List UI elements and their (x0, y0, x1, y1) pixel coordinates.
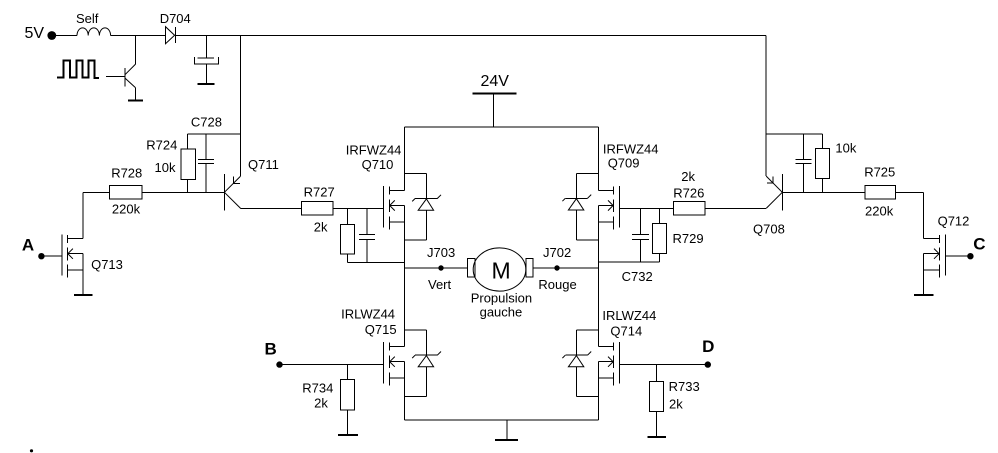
diode D704 cathode bar (175, 27, 177, 43)
mosfet Q710 drain stub (389, 190, 404, 192)
input D terminal dot (705, 361, 711, 367)
wire R727 to Q710 gate (333, 207, 383, 209)
resistor R733 bottom lead (655, 412, 657, 437)
transistor Q712 source body stub (923, 253, 939, 255)
mosfet Q715 source stub (389, 377, 404, 379)
wire junction rail to Q706 collector (134, 36, 136, 65)
zener upper-right loop top (576, 173, 598, 175)
mosfet Q709 source body stub (599, 205, 614, 207)
motor left terminal (468, 259, 475, 278)
transistor Q711 emitter arrow (234, 177, 240, 184)
wire Q712 drain riser (922, 192, 924, 238)
capacitor C728 bottom lead (205, 164, 207, 193)
svg-text:5V: 5V (25, 25, 45, 42)
transistor Q712 source stub (923, 269, 939, 271)
zener lower-left loop bottom (404, 396, 426, 398)
wire Q713 source to ground (82, 254, 84, 295)
capacitor filter lead bottom (205, 64, 207, 84)
resistor 10k right top lead (821, 134, 823, 148)
ground bar under Q713 (74, 294, 93, 296)
terminal bar under filter capacitor (198, 83, 215, 85)
wire Q712 source to ground (922, 254, 924, 295)
mosfet Q710 gate bar (382, 186, 384, 227)
ground bar bottom center (495, 439, 518, 441)
zener upper-left loop top (404, 173, 426, 175)
motor M body (473, 248, 526, 291)
wire R728 left to Q713 drain riser (83, 191, 109, 193)
zener upper-left anode lead (425, 210, 427, 240)
wire input B to Q715 gate (280, 364, 384, 366)
transistor Q706 collector diagonal (125, 64, 135, 74)
mosfet Q709 drain stub (599, 190, 614, 192)
resistor R724 bottom lead (186, 180, 188, 193)
svg-text:2k: 2k (314, 396, 328, 411)
zener lower-right anode lead (575, 367, 577, 397)
svg-text:M: M (492, 257, 511, 283)
wire bridge right leg middle (598, 206, 600, 347)
svg-text:C728: C728 (191, 115, 222, 130)
wire Q706 emitter to ground (134, 87, 136, 100)
zener lower-left bar ticks (412, 355, 415, 358)
wire input A to Q713 gate (41, 255, 62, 257)
wire Q713 drain riser to R728 (82, 192, 84, 238)
transistor Q711 emitter diagonal (224, 176, 240, 192)
wire R728 right to Q711 base (142, 191, 224, 193)
svg-text:2k: 2k (681, 169, 695, 184)
wire horizontal feeder right y134 (766, 133, 822, 135)
svg-text:R724: R724 (146, 138, 177, 153)
transistor Q712 channel segments (938, 235, 940, 243)
wire 5V to inductor (55, 35, 77, 37)
PWM square wave input symbol (57, 61, 99, 78)
svg-text:IRFWZ44: IRFWZ44 (603, 142, 659, 157)
svg-text:D704: D704 (160, 11, 191, 26)
mosfet Q714 source stub (599, 377, 614, 379)
transistor Q708 emitter arrow (767, 176, 773, 183)
wire rail down to Q708 emitter riser (765, 36, 767, 177)
svg-text:R727: R727 (304, 185, 335, 200)
mosfet Q714 gate bar (618, 342, 620, 383)
transistor Q713 source stub (68, 269, 84, 271)
svg-text:C732: C732 (622, 269, 653, 284)
wire motor right (533, 267, 598, 269)
svg-text:10k: 10k (835, 141, 856, 156)
capacitor C728 top lead (205, 134, 207, 159)
svg-text:R729: R729 (673, 231, 704, 246)
wire 24V to bridge top (493, 93, 495, 127)
resistor gate pulldown left top lead (347, 208, 349, 224)
capacitor C732 bottom lead (640, 239, 642, 262)
ground bar under Q706 (128, 100, 143, 102)
wire bridge top rail (404, 126, 598, 128)
input B terminal dot (276, 361, 282, 367)
zener lower-right triangle (568, 356, 583, 367)
wire R725 to Q712 drain riser (896, 191, 924, 193)
resistor R729 top lead (659, 208, 661, 223)
zener upper-right bar ticks (562, 198, 565, 201)
zener upper-right anode lead (575, 210, 577, 240)
svg-text:R733: R733 (669, 379, 700, 394)
transistor Q706 base bar (124, 68, 126, 87)
svg-text:Q711: Q711 (248, 157, 279, 172)
resistor 10k right body (815, 149, 829, 179)
input A terminal dot (38, 253, 44, 259)
transistor Q706 emitter diagonal (125, 78, 135, 88)
capacitor right top lead (802, 134, 804, 159)
svg-text:Q715: Q715 (365, 322, 397, 337)
wire rail down to Q711 emitter riser (240, 36, 242, 177)
node J703 junction dot (438, 265, 443, 270)
resistor R733 top lead (655, 365, 657, 382)
svg-text:R726: R726 (673, 185, 704, 200)
resistor R734 body (341, 379, 355, 409)
supply 24V bar (473, 92, 517, 94)
transistor Q711 base bar (223, 174, 225, 210)
period dot bottom left (30, 449, 33, 452)
capacitor gate left top lead (366, 208, 368, 234)
wire bridge left leg upper (403, 127, 405, 191)
resistor R727 body (302, 202, 334, 216)
svg-text:B: B (265, 340, 277, 359)
svg-text:D: D (702, 337, 714, 356)
svg-text:Q709: Q709 (608, 156, 640, 171)
zener upper-left loop bottom (404, 239, 426, 241)
mosfet Q709 gate bar (618, 186, 620, 227)
svg-text:220k: 220k (865, 204, 894, 219)
mosfet Q710 source body stub (389, 205, 404, 207)
mosfet Q710 channel segments (388, 187, 390, 195)
wire Q708 base to R725 (782, 191, 865, 193)
transistor Q712 arrow (934, 249, 939, 259)
inductor Self (77, 28, 111, 36)
resistor R729 body (652, 224, 666, 254)
capacitor right bottom lead (802, 164, 804, 193)
wire bridge right leg upper (598, 127, 600, 191)
zener lower-left loop top (404, 329, 426, 331)
mosfet Q709 arrow (608, 200, 613, 210)
node J702 junction dot (554, 265, 559, 270)
ground bar under R734 (338, 434, 358, 436)
wire Q709 gate to R726 (619, 207, 673, 209)
resistor R734 top lead (347, 365, 349, 380)
transistor Q713 gate bar (61, 234, 63, 275)
wire Q712 gate to input C (945, 255, 967, 257)
zener upper-right loop bottom (576, 239, 598, 241)
svg-text:24V: 24V (481, 73, 510, 90)
transistor Q712 drain stub (923, 238, 939, 240)
transistor Q708 base bar (781, 174, 783, 210)
svg-text:IRLWZ44: IRLWZ44 (602, 308, 656, 323)
capacitor filter cup plate (194, 57, 218, 64)
transistor Q708 emitter diagonal (766, 176, 782, 192)
zener upper-left bar ticks (412, 199, 415, 202)
resistor R724 top lead (186, 134, 188, 149)
mosfet Q714 channel segments (612, 343, 614, 351)
resistor R728 body (109, 185, 142, 199)
zener lower-left cathode lead (425, 330, 427, 355)
transistor Q713 arrow (68, 249, 73, 259)
svg-text:Rouge: Rouge (538, 277, 576, 292)
resistor gate pulldown left bottom lead (347, 254, 349, 262)
wire gate RC return to source left (348, 262, 405, 264)
capacitor filter lead top (205, 36, 207, 59)
mosfet Q709 source stub (599, 221, 614, 223)
resistor R729 bottom lead (659, 254, 661, 262)
wire R726 to Q708 collector (705, 207, 766, 209)
zener upper-right cathode bar (565, 197, 587, 199)
mosfet Q710 source stub (389, 221, 404, 223)
svg-text:J703: J703 (427, 245, 455, 260)
svg-text:2k: 2k (669, 397, 683, 412)
svg-text:Q714: Q714 (610, 324, 642, 339)
mosfet Q714 source body stub (599, 361, 614, 363)
motor right terminal (526, 259, 533, 278)
zener lower-left anode lead (425, 367, 427, 397)
wire horizontal feeder left y134 (187, 133, 240, 135)
mosfet Q715 source body stub (389, 361, 404, 363)
resistor R724 body (181, 149, 195, 179)
svg-text:R734: R734 (302, 381, 333, 396)
svg-text:C: C (973, 235, 985, 254)
diode D704 triangle (166, 27, 175, 44)
svg-text:R725: R725 (864, 165, 895, 180)
svg-text:A: A (22, 236, 34, 255)
wire motor left (404, 267, 467, 269)
zener lower-right loop bottom (576, 396, 598, 398)
svg-text:Self: Self (76, 11, 99, 26)
wire bridge bottom to ground (506, 420, 508, 439)
mosfet Q714 drain stub (599, 345, 614, 347)
zener lower-right loop top (576, 329, 598, 331)
resistor R726 body (673, 202, 705, 216)
wire bridge right leg lower (598, 362, 600, 420)
zener lower-left triangle (418, 356, 433, 367)
wire gate RC return to source right (599, 261, 660, 263)
resistor R733 body (649, 382, 663, 412)
transistor Q708 collector diagonal (766, 192, 782, 208)
zener lower-left cathode bar (415, 354, 437, 356)
svg-text:Propulsion: Propulsion (471, 290, 532, 305)
resistor 10k right bottom lead (821, 179, 823, 193)
zener lower-right cathode bar (565, 354, 587, 356)
ground bar under R733 (648, 436, 667, 438)
svg-text:Q710: Q710 (362, 157, 394, 172)
svg-text:Vert: Vert (428, 277, 452, 292)
transistor Q706 base lead (106, 75, 125, 77)
svg-text:Q713: Q713 (91, 257, 123, 272)
svg-text:gauche: gauche (480, 305, 523, 320)
mosfet Q714 arrow (608, 357, 613, 367)
mosfet Q710 arrow (390, 200, 395, 210)
svg-text:IRFWZ44: IRFWZ44 (346, 143, 402, 158)
svg-text:IRLWZ44: IRLWZ44 (341, 307, 395, 322)
wire bridge bottom rail (404, 419, 598, 421)
svg-text:J702: J702 (543, 245, 571, 260)
wire inductor to diode (111, 35, 166, 37)
svg-text:R728: R728 (111, 166, 142, 181)
wire input D to Q714 gate (619, 364, 707, 366)
capacitor filter flat plate (198, 57, 215, 59)
mosfet Q715 arrow (390, 357, 395, 367)
mosfet Q715 drain stub (389, 345, 404, 347)
zener upper-right cathode lead (575, 174, 577, 199)
zener upper-left cathode lead (425, 174, 427, 199)
capacitor gate left bottom lead (366, 239, 368, 262)
resistor R725 body (865, 185, 896, 199)
node 5V terminal dot (47, 31, 56, 40)
svg-text:10k: 10k (155, 160, 176, 175)
resistor gate pulldown left body (340, 224, 354, 254)
svg-text:2k: 2k (314, 219, 328, 234)
zener lower-right cathode lead (575, 330, 577, 355)
ground bar under Q712 (914, 294, 934, 296)
wire bridge left leg lower (403, 362, 405, 420)
mosfet Q715 gate bar (382, 342, 384, 383)
transistor Q713 source body stub (68, 253, 84, 255)
zener upper-right triangle (568, 199, 583, 210)
mosfet Q709 channel segments (612, 187, 614, 195)
transistor Q712 gate bar (944, 234, 946, 275)
wire Q711 collector to R727 (241, 207, 302, 209)
resistor R734 bottom lead (347, 410, 349, 435)
capacitor C732 top lead (640, 208, 642, 234)
mosfet Q715 channel segments (388, 343, 390, 351)
svg-text:220k: 220k (112, 201, 141, 216)
svg-text:Q708: Q708 (753, 222, 785, 237)
capacitor gate left plates (359, 234, 375, 236)
input C terminal dot (967, 253, 973, 259)
zener lower-right bar ticks (562, 355, 565, 358)
transistor Q713 drain stub (68, 238, 84, 240)
svg-text:Q712: Q712 (938, 214, 970, 229)
zener upper-left cathode bar (415, 198, 437, 200)
wire diode to right rail corner (176, 35, 767, 37)
transistor Q713 channel segments (67, 235, 69, 243)
capacitor C728 plates (198, 158, 214, 160)
capacitor right plates (796, 158, 812, 160)
wire bridge left leg middle (403, 206, 405, 347)
zener upper-left triangle (418, 199, 433, 210)
transistor Q711 collector diagonal (224, 192, 240, 208)
capacitor C732 plates (632, 234, 649, 236)
